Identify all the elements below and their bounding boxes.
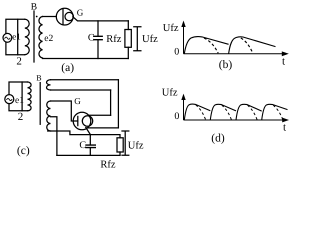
svg-text:(a): (a) bbox=[61, 62, 74, 74]
svg-text:Ufz: Ufz bbox=[142, 34, 158, 45]
resistor bottom lead (circuit c) bbox=[119, 152, 121, 155]
middle branch wire (circuit a) bbox=[17, 19, 19, 55]
capacitor C plates (circuit c) bbox=[86, 145, 95, 148]
svg-text:t: t bbox=[283, 121, 286, 133]
middle branch wire (circuit c) bbox=[21, 82, 23, 111]
svg-text:Ufz: Ufz bbox=[162, 87, 178, 98]
svg-text:e2: e2 bbox=[44, 34, 53, 44]
svg-text:B: B bbox=[36, 74, 41, 83]
secondary upper winding (circuit c) bbox=[47, 80, 51, 90]
svg-text:2: 2 bbox=[16, 55, 22, 67]
circuit a: source loop wires bbox=[6, 19, 25, 55]
svg-text:(b): (b) bbox=[219, 59, 233, 71]
svg-text:Rfz: Rfz bbox=[106, 34, 122, 45]
wire upper winding bottom end (circuit c) bbox=[51, 89, 111, 91]
tube diode G (circuit c) bbox=[73, 112, 93, 130]
svg-text:Ufz: Ufz bbox=[163, 23, 179, 34]
graph b: solid output curve bbox=[184, 37, 275, 54]
wire lower winding bottom end (circuit c) bbox=[48, 131, 91, 135]
svg-text:G: G bbox=[74, 96, 81, 106]
output marker Ufz (circuit c) bbox=[122, 131, 129, 155]
graph d: dashed sine fall 2 bbox=[222, 105, 232, 120]
wire outer vertical (circuit c) bbox=[117, 80, 119, 128]
svg-text:0: 0 bbox=[174, 111, 179, 122]
svg-text:e1: e1 bbox=[15, 96, 24, 106]
load top rail (circuit c) bbox=[90, 135, 120, 138]
wire inner vertical (circuit c) bbox=[110, 90, 112, 115]
svg-text:(d): (d) bbox=[211, 132, 225, 144]
wire upper winding top end (circuit c) bbox=[51, 79, 119, 81]
circuit c: source loop wires bbox=[9, 82, 28, 111]
right branch wires (circuit a) bbox=[127, 21, 129, 59]
graph d: y axis arrowhead bbox=[181, 94, 185, 100]
svg-text:C: C bbox=[79, 140, 86, 151]
graph b: y axis arrowhead bbox=[181, 21, 185, 28]
primary winding (circuit c) bbox=[28, 82, 32, 111]
wire tube lower right (circuit c) bbox=[87, 127, 118, 129]
graph d: x axis bbox=[184, 119, 285, 121]
wire secondary top to tube (circuit a) bbox=[43, 16, 57, 18]
resistor Rfz rectangle (circuit a) bbox=[125, 30, 131, 48]
svg-text:e1: e1 bbox=[12, 31, 20, 41]
svg-text:Ufz: Ufz bbox=[128, 141, 144, 152]
capacitor C leads (circuit a) bbox=[97, 21, 99, 59]
wire tube cathode diagonal (circuit c) bbox=[86, 127, 91, 134]
graph b: dashed sine fall 2 bbox=[241, 38, 253, 53]
primary winding (circuit a) bbox=[25, 19, 29, 54]
bottom rail (circuit c) bbox=[57, 154, 120, 156]
svg-text:(c): (c) bbox=[17, 145, 30, 157]
graph d: y axis bbox=[183, 98, 185, 120]
secondary winding e2 (circuit a) bbox=[39, 17, 43, 58]
graph d: dashed sine fall 4 bbox=[273, 105, 283, 120]
capacitor C plates (circuit a) bbox=[94, 36, 102, 39]
bottom rail (circuit a) bbox=[43, 58, 129, 60]
AC source e1 (circuit c) bbox=[5, 95, 14, 104]
output marker Ufz (circuit a) bbox=[134, 27, 141, 51]
svg-text:2: 2 bbox=[18, 111, 24, 123]
svg-text:Rfz: Rfz bbox=[100, 160, 116, 169]
graph b: x axis arrowhead bbox=[282, 51, 289, 56]
transformer core B (circuit c) bbox=[39, 83, 41, 125]
graph d: dashed sine fall 3 bbox=[248, 105, 258, 120]
graph d: x axis arrowhead bbox=[282, 118, 289, 123]
graph d: dashed sine fall 1 bbox=[196, 105, 206, 120]
svg-text:t: t bbox=[282, 55, 285, 67]
secondary lower winding (circuit c) bbox=[47, 101, 51, 131]
tube diode G (circuit a) bbox=[56, 8, 73, 25]
graph d: solid output curve bbox=[184, 104, 287, 120]
svg-text:G: G bbox=[77, 8, 84, 18]
transformer core B (circuit a) bbox=[33, 11, 35, 62]
svg-text:B: B bbox=[31, 2, 37, 12]
graph b: dashed sine fall 1 bbox=[204, 38, 218, 53]
graph b: x axis bbox=[184, 53, 284, 55]
AC source e1 (circuit a) bbox=[3, 33, 12, 42]
svg-text:C: C bbox=[88, 32, 95, 43]
resistor Rfz rectangle (circuit c) bbox=[117, 138, 123, 152]
svg-text:0: 0 bbox=[174, 46, 179, 57]
wire center tap to bottom rail (circuit c) bbox=[51, 117, 57, 156]
wire lower winding top to tube plate (circuit c) bbox=[51, 101, 78, 121]
wire tube upper right (circuit c) bbox=[90, 114, 111, 116]
capacitor C leads (circuit c) bbox=[89, 135, 91, 156]
graph b: y axis bbox=[183, 25, 185, 54]
wire tube to top rail (circuit a) bbox=[73, 17, 128, 21]
polarity dot (circuit a) bbox=[36, 16, 38, 18]
